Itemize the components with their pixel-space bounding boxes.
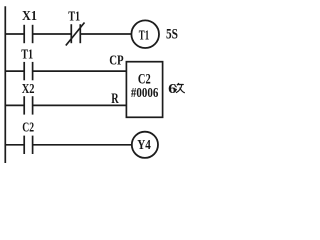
svg-text:Y4: Y4 <box>137 138 151 153</box>
svg-text:T1: T1 <box>21 48 33 63</box>
svg-text:T1: T1 <box>68 10 80 25</box>
svg-text:CP: CP <box>109 54 124 69</box>
svg-text:C2: C2 <box>138 71 151 87</box>
svg-text:R: R <box>111 91 119 107</box>
svg-text:#0006: #0006 <box>131 86 158 101</box>
svg-text:5S: 5S <box>166 26 178 42</box>
svg-text:T1: T1 <box>139 27 150 42</box>
svg-text:X1: X1 <box>22 9 37 24</box>
svg-text:6: 6 <box>168 81 177 96</box>
svg-text:C2: C2 <box>22 121 34 136</box>
svg-text:X2: X2 <box>22 82 35 97</box>
